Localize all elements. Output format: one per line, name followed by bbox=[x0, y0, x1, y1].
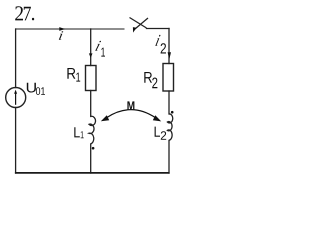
wire middle branch upper bbox=[90, 29, 92, 66]
label L2 bbox=[155, 127, 160, 137]
wire top-left horizontal bbox=[16, 28, 125, 30]
polarity dot L2 bbox=[171, 111, 174, 114]
label i1 bbox=[95, 41, 101, 51]
source U01 arrow bbox=[15, 93, 17, 105]
switch S arrowhead bbox=[133, 27, 137, 32]
label 27. bbox=[15, 6, 34, 20]
M arrowhead right bbox=[153, 115, 161, 121]
mutual inductance M arc bbox=[107, 110, 156, 118]
wire bottom horizontal bbox=[15, 172, 170, 174]
M arrowhead left bbox=[101, 115, 109, 121]
inductor L2 bbox=[167, 114, 172, 140]
switch S blade bbox=[130, 18, 147, 29]
label R2 bbox=[144, 72, 152, 83]
label U01 bbox=[27, 83, 36, 93]
current i1 arrow bbox=[89, 53, 93, 58]
inductor L1 bbox=[89, 116, 96, 144]
wire left vertical upper bbox=[15, 29, 17, 88]
label M bbox=[127, 101, 134, 110]
wire left vertical lower bbox=[15, 108, 17, 174]
source U01 circle bbox=[6, 88, 26, 108]
wire top-right horizontal bbox=[147, 28, 170, 30]
wire middle between R1 and L1 bbox=[90, 91, 92, 117]
resistor R2 bbox=[163, 64, 174, 92]
current i2 arrow bbox=[168, 52, 171, 59]
resistor R1 bbox=[86, 66, 97, 91]
switch S cross stroke bbox=[135, 18, 148, 29]
current i arrow on top wire bbox=[59, 27, 65, 31]
wire middle lower bbox=[90, 144, 92, 173]
wire right between R2 and L2 bbox=[168, 91, 170, 114]
wire right vertical lower bbox=[168, 141, 170, 174]
polarity dot L1 bbox=[92, 147, 95, 150]
label i (total current) bbox=[59, 31, 63, 40]
label L1 bbox=[74, 127, 80, 137]
label i2 bbox=[155, 35, 160, 46]
label R1 bbox=[67, 68, 75, 79]
wire right vertical upper bbox=[168, 29, 170, 64]
